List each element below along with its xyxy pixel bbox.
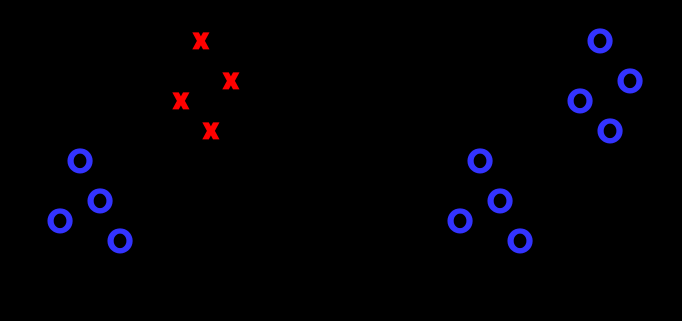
blue O point 3 (left cluster): [47, 208, 72, 233]
blue O point 8 (middle cluster): [507, 228, 532, 253]
blue O point 11 (top-right cluster): [567, 88, 592, 113]
red X point 4: [202, 122, 219, 139]
blue O point 1 (left cluster): [67, 148, 92, 173]
blue O point 12 (top-right cluster): [597, 118, 622, 143]
red X point 2: [222, 72, 239, 89]
red X point 1: [192, 32, 209, 49]
blue O point 10 (top-right cluster): [617, 68, 642, 93]
blue O point 2 (left cluster): [87, 188, 112, 213]
blue O point 7 (middle cluster): [447, 208, 472, 233]
blue O point 5 (middle cluster): [467, 148, 492, 173]
blue O point 6 (middle cluster): [487, 188, 512, 213]
blue O point 9 (top-right cluster): [587, 28, 612, 53]
red X point 3: [172, 92, 189, 109]
blue O point 4 (left cluster): [107, 228, 132, 253]
